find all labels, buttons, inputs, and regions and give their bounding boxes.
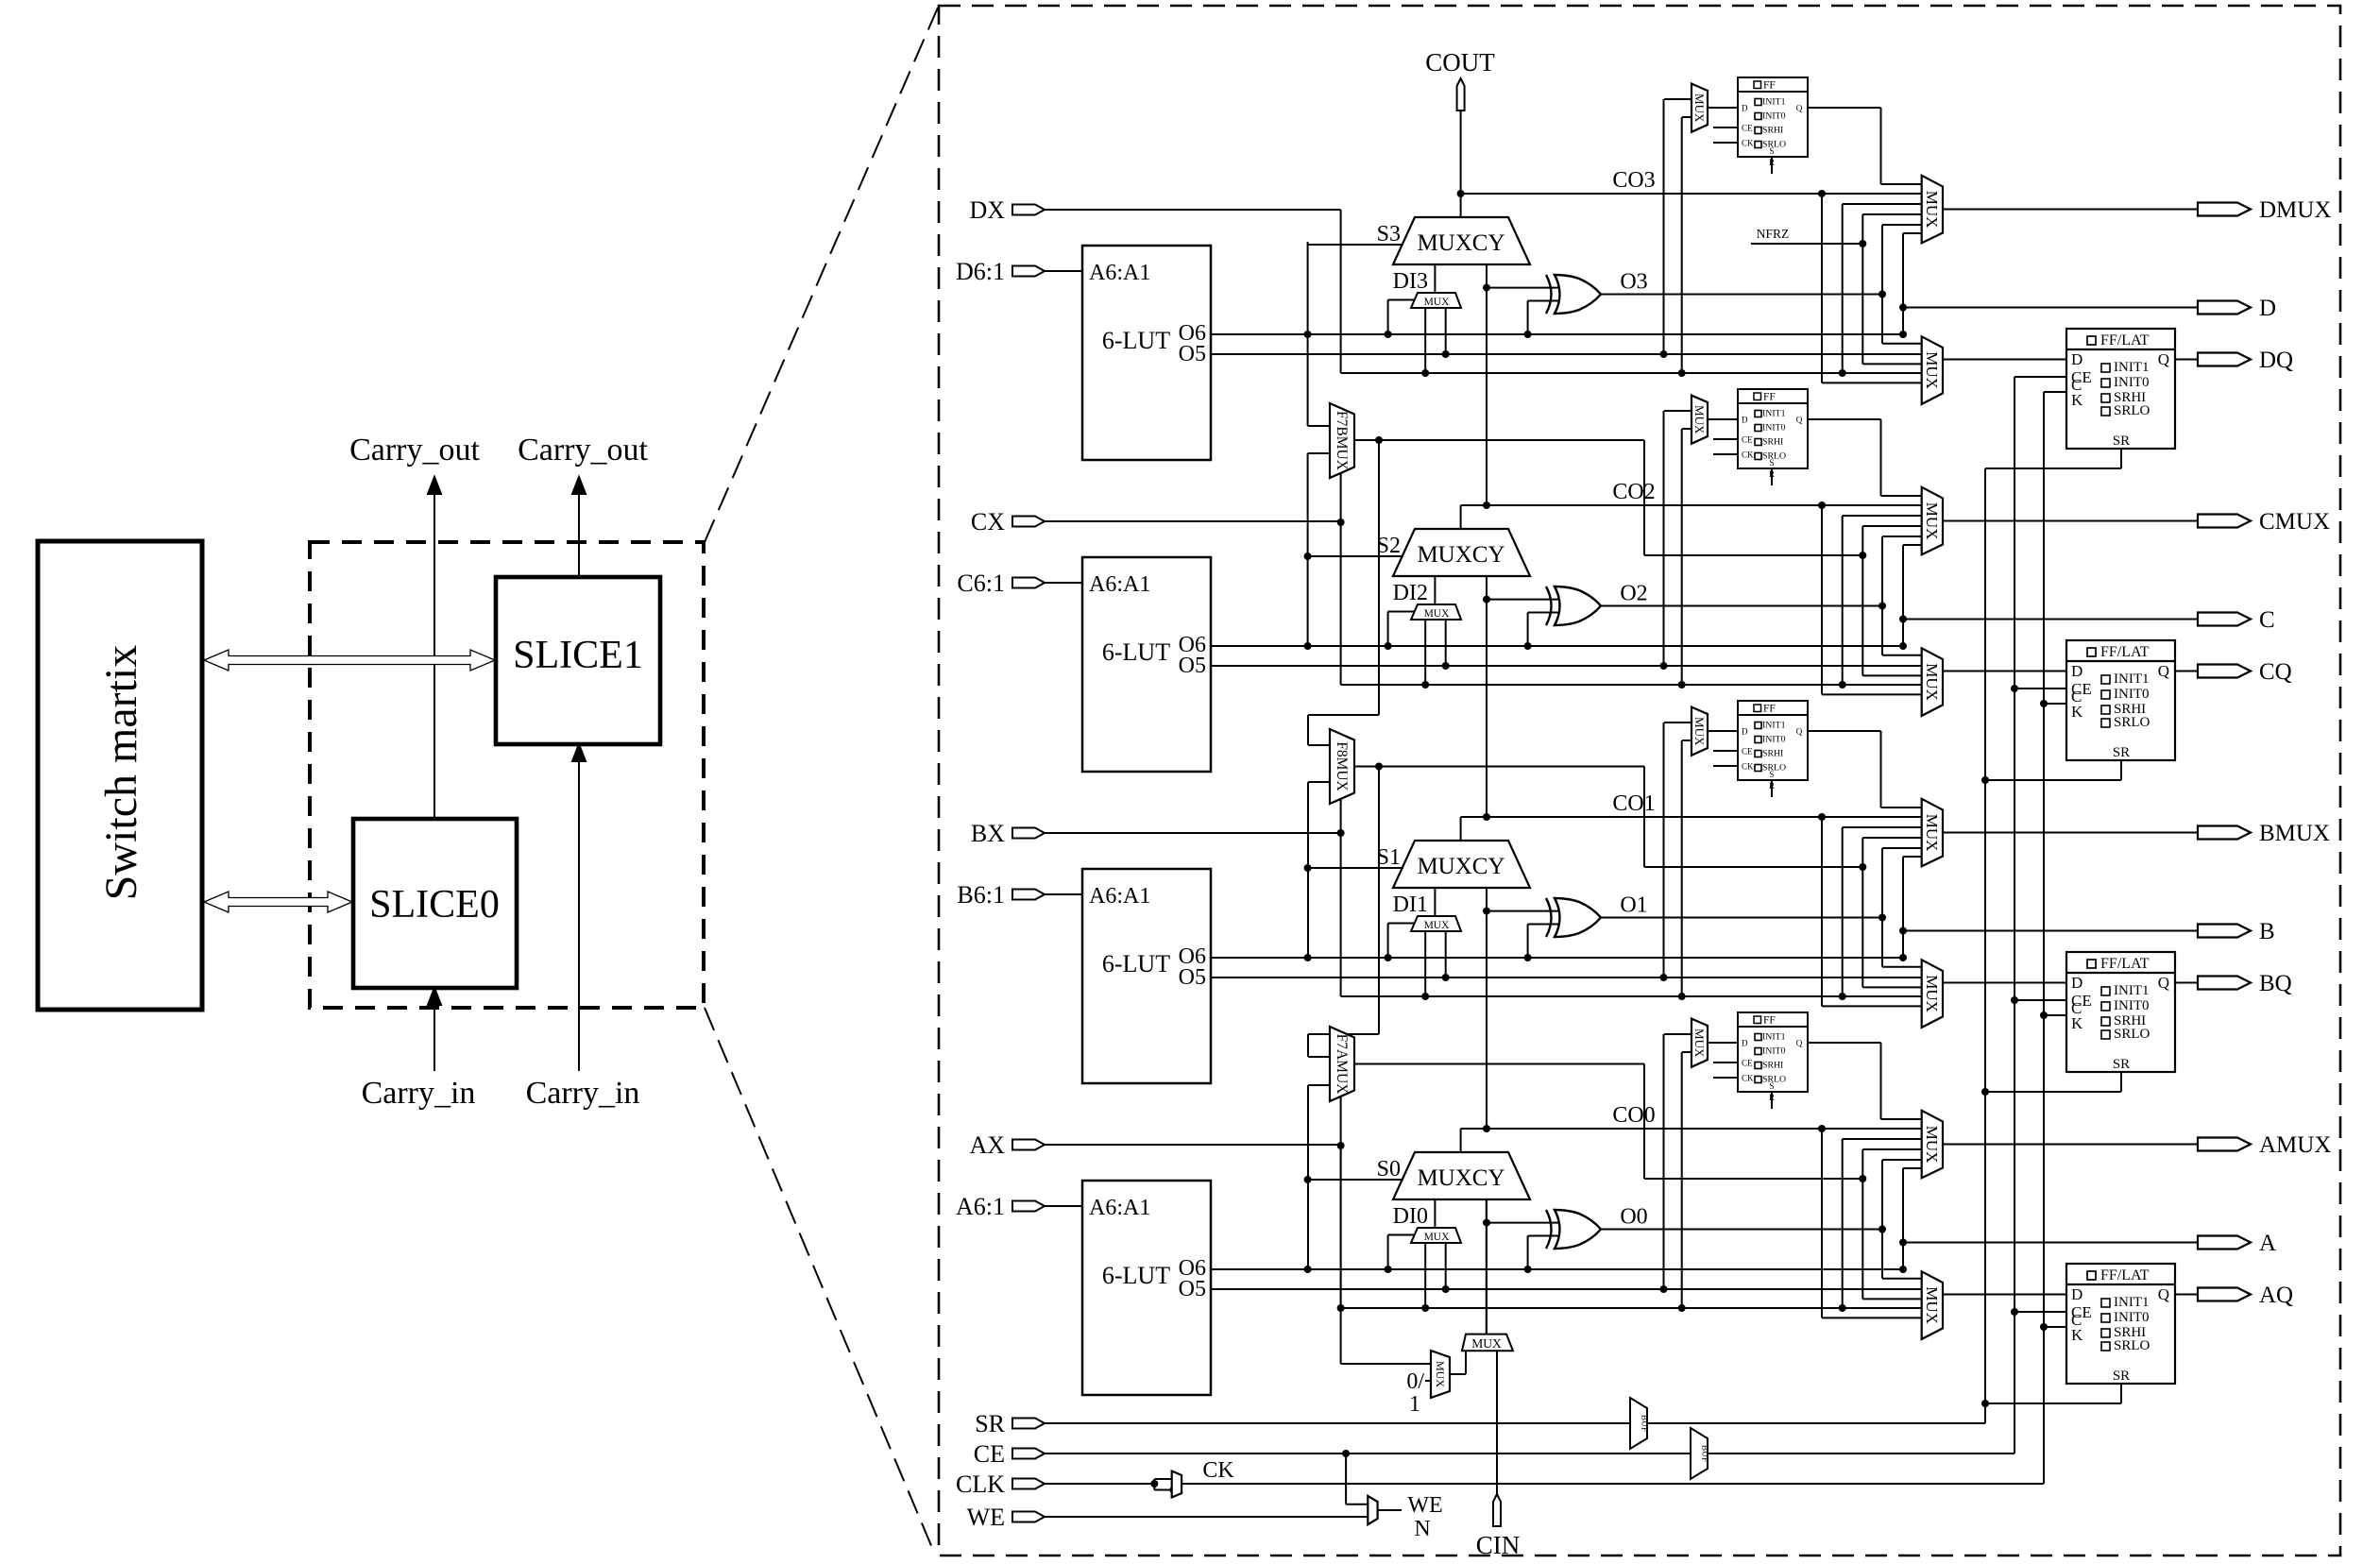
MUX CMUX (output mux) (1922, 487, 1943, 555)
svg-text:CO3: CO3 (1612, 168, 1655, 193)
SLICE1 box (496, 577, 660, 744)
dot A out tap (1899, 1239, 1907, 1247)
wire BMUX out (1943, 832, 2198, 834)
label CK (1202, 1458, 1234, 1483)
wire O6 to MUX1 (1903, 545, 1922, 646)
input pin CLK (956, 1470, 1045, 1498)
wire A6:1 to LUT (1045, 1205, 1082, 1207)
wire Fmux out descender C (1643, 440, 1645, 555)
svg-text:AX: AX (969, 1131, 1005, 1159)
dot CO1 down riser (1818, 813, 1826, 821)
dot carry/XOR tap (1483, 1219, 1490, 1227)
svg-text:DI0: DI0 (1393, 1204, 1428, 1229)
wire DX line (1045, 209, 1341, 211)
dot carry/XOR tap (1483, 908, 1490, 915)
wire O2 to MUX1 (1882, 536, 1922, 606)
output pin BMUX (2198, 821, 2330, 846)
svg-text:CK: CK (1742, 450, 1754, 460)
6-LUT B (1082, 869, 1211, 1083)
wire D6:1 to LUT (1045, 270, 1082, 272)
svg-text:Q: Q (2158, 974, 2169, 992)
wire BX line (1045, 832, 1341, 834)
wire FF Q to mux1 (1808, 419, 1922, 496)
wire O5-C line (1211, 665, 1922, 667)
svg-text:B6:1: B6:1 (957, 881, 1005, 909)
svg-text:SR: SR (2113, 433, 2130, 449)
svg-text:FF/LAT: FF/LAT (2100, 1267, 2150, 1283)
dot O5 DI tap (1442, 1285, 1450, 1293)
svg-text:MUX: MUX (1923, 975, 1941, 1012)
dot bypass DI tap (1421, 993, 1429, 1000)
svg-text:MUX: MUX (1424, 1232, 1451, 1243)
dot CLK split (1150, 1480, 1158, 1487)
dot O5 DI tap (1442, 662, 1450, 670)
MUX carry-init (1462, 1334, 1513, 1351)
input pin SR (975, 1410, 1045, 1437)
MUXCY S2 (carry mux C) (1393, 529, 1530, 576)
dot CK rail C (2040, 700, 2048, 707)
svg-text:D: D (1742, 1039, 1748, 1048)
input pin A6:1 (956, 1193, 1045, 1220)
dot O6 XOR tap (1524, 1266, 1532, 1273)
svg-text:Q: Q (1796, 727, 1803, 737)
svg-text:S2: S2 (1377, 534, 1401, 558)
dot O6 S-riser (1304, 331, 1312, 338)
wire F7AMUX select to AX (1340, 1096, 1342, 1146)
dot O6 out riser (1899, 1266, 1907, 1273)
wire O1 line (1601, 917, 1882, 919)
svg-text:MUXCY: MUXCY (1417, 1165, 1504, 1191)
wire O1 to MUX2 (1882, 918, 1922, 967)
svg-text:INIT1: INIT1 (2114, 360, 2150, 375)
wire DI mux in-left from bypass (1424, 931, 1426, 996)
svg-text:DI1: DI1 (1393, 892, 1428, 917)
dot CO2 at carry riser (1483, 501, 1490, 509)
wire aux to MUX2 (1862, 555, 1921, 675)
svg-text:SR: SR (975, 1410, 1005, 1437)
wire O6 to DI mux left (1388, 924, 1415, 959)
wire FF/LAT SR loop B (1985, 1072, 2121, 1092)
label CIN (1476, 1531, 1521, 1559)
dot CK rail B (2040, 1011, 2048, 1019)
dot S1 tap (1304, 864, 1312, 872)
svg-text:MUX: MUX (1923, 351, 1941, 389)
svg-text:S: S (1769, 458, 1774, 467)
svg-text:O5: O5 (1179, 1277, 1206, 1301)
wire COUT riser (1460, 110, 1462, 217)
dot O5 ffmux tap (1660, 1285, 1668, 1293)
wire ffmux in2 from bypass (1682, 740, 1691, 996)
svg-text:D: D (2259, 296, 2276, 321)
wire FF B CK stub (1713, 765, 1738, 767)
svg-text:BUF: BUF (1640, 1415, 1649, 1432)
dot C out tap (1899, 616, 1907, 623)
MUX DQ input mux (1922, 336, 1943, 404)
CLB dashed box (310, 542, 704, 1008)
wire B6:1 to LUT (1045, 893, 1082, 895)
wire F7BMUX out to F8MUX in1 (1308, 440, 1379, 745)
wire FF B SR stub (1771, 780, 1773, 797)
label O2 (1620, 582, 1647, 606)
svg-text:CK: CK (1202, 1458, 1234, 1483)
label O1 (1620, 893, 1647, 918)
dot O6 out riser (1899, 954, 1907, 961)
svg-text:S1: S1 (1377, 845, 1401, 870)
wire FF/LAT SR loop A (1985, 1384, 2121, 1403)
wire XOR in from O6 (1528, 925, 1558, 959)
wire DI mux in-left from bypass (1424, 308, 1426, 373)
svg-text:CQ: CQ (2259, 659, 2292, 685)
dot O6 DI tap (1385, 642, 1392, 650)
wire MUX2 out to FF/LAT D D (1943, 359, 2066, 361)
svg-text:C6:1: C6:1 (957, 569, 1005, 597)
label O3 (1620, 270, 1647, 295)
6-LUT C (1082, 557, 1211, 772)
svg-text:CE: CE (1742, 435, 1753, 445)
XOR gate O2 (1546, 586, 1601, 625)
FF/LAT box B (2066, 952, 2175, 1072)
svg-text:C: C (2259, 607, 2275, 633)
dot O1 riser (1878, 914, 1886, 922)
svg-text:INIT0: INIT0 (2114, 687, 2150, 702)
wire S1 select (1308, 867, 1403, 869)
dot bypass mux1 tap (1839, 993, 1846, 1000)
XOR gate O1 (1546, 898, 1601, 937)
wire DI mux in-right from O5 (1445, 308, 1447, 354)
BUF on CE (1691, 1428, 1709, 1479)
svg-text:INIT1: INIT1 (1762, 409, 1786, 419)
wire MUXCY output riser B (1460, 817, 1462, 841)
dot bypass DI tap (1421, 681, 1429, 688)
svg-text:INIT0: INIT0 (1762, 1046, 1786, 1057)
svg-text:BMUX: BMUX (2259, 821, 2330, 846)
svg-text:DX: DX (969, 196, 1005, 224)
wire O5-D line (1211, 353, 1922, 355)
wire CE to WEN mux (1346, 1453, 1368, 1504)
wire ffmux out to FF D (1708, 107, 1738, 109)
wire FF C CK stub (1713, 453, 1738, 455)
input pin AX (969, 1131, 1045, 1159)
svg-text:AMUX: AMUX (2259, 1132, 2331, 1158)
dot O6 S-riser (1304, 642, 1312, 650)
wire Fmux out descender A (1643, 1064, 1645, 1180)
svg-text:D: D (2071, 662, 2082, 680)
wire FF/LAT SR loop D (1985, 449, 2121, 468)
svg-text:MUX: MUX (1923, 1286, 1941, 1324)
svg-text:D6:1: D6:1 (956, 258, 1005, 285)
output pin DQ (2198, 348, 2293, 373)
MUX 0/1 select (1431, 1351, 1450, 1398)
wire FF D CK stub (1713, 142, 1738, 144)
dot aux riser (1859, 863, 1866, 871)
Carry_out arrow from SLICE1 (572, 477, 586, 577)
MUX before FF C (1691, 396, 1708, 444)
dot B out tap (1899, 927, 1907, 935)
wire FF A SR stub (1771, 1092, 1773, 1109)
svg-text:INIT0: INIT0 (2114, 998, 2150, 1013)
svg-text:A6:A1: A6:A1 (1089, 884, 1150, 909)
svg-text:FF/LAT: FF/LAT (2100, 644, 2150, 660)
svg-text:WE: WE (1407, 1493, 1442, 1518)
clock inversion mux (1154, 1471, 1181, 1498)
dot bypass ffmux tap (1678, 993, 1686, 1000)
wire O6 to DI mux left (1388, 1235, 1415, 1270)
wire DI mux in-right from O5 (1445, 1243, 1447, 1289)
label S3 (1377, 222, 1401, 246)
svg-text:DMUX: DMUX (2259, 197, 2331, 223)
wire ffmux out to FF D (1708, 1042, 1738, 1044)
wire F7BMUX in1 from O6-D (1308, 242, 1330, 426)
wire FF/LAT CK B (2044, 1014, 2066, 1016)
svg-text:6-LUT: 6-LUT (1102, 638, 1170, 666)
wire ffmux in2 from bypass (1682, 117, 1691, 373)
dot O5 DI tap (1442, 974, 1450, 981)
MUX DI2 (carry DI select) (1411, 604, 1461, 620)
dot O6 DI tap (1385, 954, 1392, 961)
wire DI3 to MUXCY (1434, 264, 1436, 293)
Carry_in arrow to SLICE1 (572, 744, 586, 1071)
dot aux riser (1859, 552, 1866, 559)
svg-text:A6:A1: A6:A1 (1089, 572, 1150, 597)
Carry_in arrow to SLICE0 (428, 988, 441, 1071)
svg-text:O5: O5 (1179, 342, 1206, 366)
wire DI0 to MUXCY (1434, 1199, 1436, 1228)
wire bypass to MUX1 (1843, 827, 1922, 996)
svg-text:FF/LAT: FF/LAT (2100, 956, 2150, 972)
svg-text:MUX: MUX (1424, 608, 1451, 620)
svg-text:INIT1: INIT1 (2114, 983, 2150, 998)
svg-text:AQ: AQ (2259, 1283, 2293, 1308)
wire aux line A (1644, 1178, 1862, 1180)
dot CE rail B (2011, 996, 2018, 1004)
input pin C6:1 (957, 569, 1045, 597)
label DI2 (1393, 581, 1428, 605)
wire DX bypass line (1341, 372, 1922, 374)
svg-text:INIT1: INIT1 (2114, 671, 2150, 687)
XOR gate O0 (1546, 1210, 1601, 1249)
FF/LAT box C (2066, 640, 2175, 760)
wire FF/LAT CE B (2014, 999, 2066, 1001)
svg-text:Carry_in: Carry_in (362, 1076, 476, 1111)
svg-text:CO1: CO1 (1612, 791, 1655, 816)
wire O6 to DI mux left (1388, 612, 1415, 647)
wire ffmux in1 from O5 (1664, 411, 1692, 666)
svg-text:MUXCY: MUXCY (1417, 854, 1504, 879)
COUT pin (1457, 78, 1465, 110)
wire MUXCY output riser C (1460, 505, 1462, 529)
output pin D (2198, 296, 2276, 321)
FF box A (1738, 1012, 1808, 1102)
wire aux to MUX1 (1862, 1149, 1921, 1179)
dot SR rail C (1981, 776, 1989, 784)
svg-text:MUX: MUX (1923, 663, 1941, 701)
MUXCY S0 (carry mux A) (1393, 1152, 1530, 1199)
wire O3 to MUX1 (1882, 225, 1922, 295)
dot carry/XOR tap (1483, 284, 1490, 292)
wire CX bypass riser (1340, 521, 1342, 685)
svg-text:O2: O2 (1620, 582, 1647, 606)
svg-text:MUX: MUX (1692, 717, 1707, 746)
bus arrow to SLICE1 (204, 650, 495, 671)
svg-text:SRHI: SRHI (1762, 126, 1783, 136)
Carry_out label right (518, 433, 648, 467)
wire FF C CE stub (1713, 438, 1738, 440)
svg-text:Carry_out: Carry_out (349, 433, 480, 467)
6-LUT A (1082, 1181, 1211, 1395)
svg-text:CK: CK (1742, 762, 1754, 772)
wire DI mux in-right from O5 (1445, 931, 1447, 977)
wire ffmux in2 from bypass (1682, 1052, 1691, 1308)
wire carry CIN riser (1486, 1199, 1487, 1334)
svg-text:K: K (2071, 703, 2083, 721)
svg-text:S: S (1769, 770, 1774, 779)
wire O5-B line (1211, 977, 1922, 978)
svg-text:B: B (2259, 919, 2275, 944)
wire O2 to MUX2 (1882, 606, 1922, 655)
svg-text:O5: O5 (1179, 965, 1206, 990)
F8MUX (1330, 729, 1354, 804)
svg-text:1: 1 (1409, 1392, 1420, 1417)
wire F7AMUX out (1354, 1063, 1644, 1065)
dot bypass ffmux tap (1678, 1304, 1686, 1312)
svg-text:SLICE0: SLICE0 (369, 883, 500, 926)
label CO0 (1612, 1103, 1655, 1128)
dot BX select (1337, 829, 1345, 837)
FF box B (1738, 701, 1808, 790)
label S0 (1377, 1157, 1401, 1181)
output pin C (2198, 607, 2275, 633)
svg-text:CE: CE (1742, 124, 1753, 133)
zoom diagonal top (705, 8, 938, 542)
svg-text:INIT0: INIT0 (2114, 375, 2150, 390)
dot O6 DI tap (1385, 1266, 1392, 1273)
svg-text:Q: Q (1796, 104, 1803, 113)
dot O6 S-riser (1304, 954, 1312, 961)
Carry_out label left (349, 433, 480, 467)
wire DI mux in-left from bypass (1424, 1243, 1426, 1308)
dot bypass DI tap (1421, 1304, 1429, 1312)
label DI3 (1393, 269, 1428, 294)
wire AX line (1045, 1144, 1341, 1146)
wire CIN mux out riser (1486, 1199, 1487, 1334)
label CO1 (1612, 791, 1655, 816)
wire O0 line (1601, 1229, 1882, 1231)
wire FF/LAT Q to AQ pin (2175, 1294, 2198, 1296)
BUF on SR (1630, 1398, 1649, 1449)
wire CK rail (2043, 392, 2045, 1484)
wire O6 to DI mux left (1388, 300, 1415, 335)
svg-text:MUX: MUX (1424, 297, 1451, 308)
svg-text:S: S (1769, 1081, 1774, 1091)
svg-text:6-LUT: 6-LUT (1102, 950, 1170, 977)
svg-text:SR: SR (2113, 745, 2130, 760)
svg-text:FF: FF (1763, 392, 1776, 403)
svg-text:MUX: MUX (1471, 1336, 1502, 1351)
wire D out line (1903, 307, 2198, 309)
input pin CX (971, 508, 1045, 535)
MUX DMUX (output mux) (1922, 176, 1943, 243)
svg-text:F8MUX: F8MUX (1334, 741, 1350, 791)
wire aux to MUX2 (1862, 244, 1921, 364)
switch matrix box (38, 541, 202, 1010)
wire F7BMUX in2 to O6-C (1308, 453, 1330, 646)
dot carry/XOR tap (1483, 596, 1490, 603)
svg-text:CO2: CO2 (1612, 480, 1655, 504)
svg-text:MUXCY: MUXCY (1417, 542, 1504, 568)
svg-text:O0: O0 (1620, 1205, 1647, 1230)
wire carry CO2 riser (1486, 264, 1487, 506)
svg-text:SRLO: SRLO (2114, 715, 2150, 730)
output pin BQ (2198, 971, 2292, 996)
wire CX line (1045, 520, 1341, 522)
XOR gate O3 (1546, 275, 1601, 314)
wire C out line (1903, 619, 2198, 620)
dot O5 ffmux tap (1660, 662, 1668, 670)
wire XOR in from carry (1487, 910, 1558, 912)
wire Fmux out descender B (1643, 767, 1645, 868)
svg-text:SRHI: SRHI (1762, 749, 1783, 759)
input pin D6:1 (956, 258, 1045, 285)
input pin WE (967, 1504, 1045, 1531)
dot SR rail B (1981, 1088, 1989, 1096)
label CO3 (1612, 168, 1655, 193)
svg-text:D: D (2071, 350, 2082, 368)
wire FF/LAT CE A (2014, 1311, 2066, 1313)
wire FF/LAT Q to BQ pin (2175, 982, 2198, 984)
wire aux line B (1644, 866, 1862, 868)
wire FF/LAT Q to CQ pin (2175, 671, 2198, 672)
output pin AQ (2198, 1283, 2293, 1308)
svg-text:D: D (1742, 416, 1748, 425)
dot O2 riser (1878, 603, 1886, 610)
MUX DI0 (carry DI select) (1411, 1228, 1461, 1243)
wire SR rail (1984, 468, 1986, 1423)
wire AX riser to 0/1 mux (1341, 1146, 1431, 1364)
svg-text:DQ: DQ (2259, 348, 2293, 373)
wire O1 to MUX1 (1882, 848, 1922, 918)
wire aux to MUX1 (1862, 526, 1921, 555)
dot CO2 down riser (1818, 501, 1826, 509)
dot SR rail A (1981, 1400, 1989, 1407)
svg-text:F7BMUX: F7BMUX (1334, 411, 1350, 470)
output pin CMUX (2198, 509, 2330, 535)
svg-text:Carry_out: Carry_out (518, 433, 648, 467)
MUX AQ input mux (1922, 1271, 1943, 1339)
wire FF A CK stub (1713, 1077, 1738, 1079)
svg-text:FF/LAT: FF/LAT (2100, 332, 2150, 348)
svg-text:MUX: MUX (1923, 1126, 1941, 1164)
dot bypass DI tap (1421, 369, 1429, 377)
wire FF/LAT CK A (2044, 1326, 2066, 1328)
wire bypass to MUX1 (1843, 1139, 1922, 1308)
SLICE0 box (353, 819, 517, 988)
svg-text:CE: CE (1742, 747, 1753, 756)
MUX DI1 (carry DI select) (1411, 916, 1461, 931)
dot aux riser (1859, 1175, 1866, 1182)
wire S2 select (1308, 555, 1403, 557)
wire O0 to MUX1 (1882, 1160, 1922, 1230)
zoom diagonal bottom (705, 1008, 935, 1555)
svg-text:INIT1: INIT1 (2114, 1295, 2150, 1310)
svg-text:INIT1: INIT1 (1762, 97, 1786, 108)
dot O6 XOR tap (1524, 331, 1532, 338)
wire FF/LAT CK C (2044, 703, 2066, 705)
svg-text:SRLO: SRLO (1762, 763, 1786, 773)
wire AX bypass line (1341, 1307, 1922, 1309)
input pin CE (974, 1440, 1045, 1468)
input pin DX (969, 196, 1045, 224)
wire A out line (1903, 1242, 2198, 1244)
